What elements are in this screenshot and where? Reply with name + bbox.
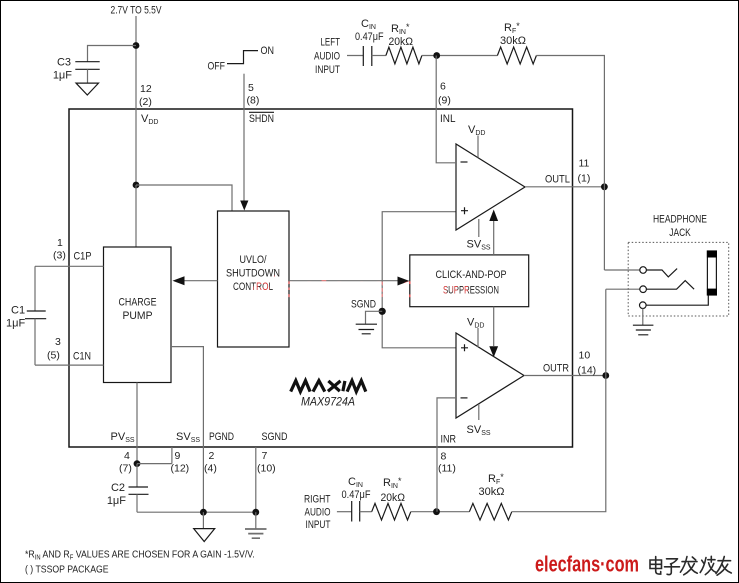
wire left input xyxy=(347,55,363,57)
arrow into charge pump xyxy=(173,276,185,285)
wire CIN to RIN xyxy=(372,55,386,57)
jack tip switch xyxy=(646,269,677,277)
svg-text:RIGHT: RIGHT xyxy=(304,494,331,506)
capacitor C3 xyxy=(75,62,99,70)
wire SVSS pin tick xyxy=(171,447,173,464)
U-L plus input symbol xyxy=(461,207,468,214)
wire VDD to charge pump xyxy=(135,185,137,247)
wire RIN to node xyxy=(422,55,498,57)
wire bottom ground bus xyxy=(137,511,256,513)
resistor RIN (right) xyxy=(372,503,411,520)
wire SGND pin tick xyxy=(255,447,257,512)
capacitor C1 xyxy=(34,266,36,311)
wire VDD to UVLO xyxy=(136,185,232,211)
node PVSS junction xyxy=(134,460,141,467)
node OUTL junction xyxy=(601,183,608,190)
svg-text:*RIN AND RF VALUES ARE CHOSEN: *RIN AND RF VALUES ARE CHOSEN FOR A GAIN… xyxy=(25,549,255,562)
op-amp U-R (right channel) xyxy=(456,333,524,418)
svg-text:OUTR: OUTR xyxy=(543,363,569,375)
wire VDD rail vertical xyxy=(135,16,137,185)
svg-text:MAX9724A: MAX9724A xyxy=(301,395,355,409)
wire internal SGND net (opamp + inputs) xyxy=(382,212,456,348)
svg-text:3: 3 xyxy=(55,336,61,348)
svg-text:SHDN: SHDN xyxy=(249,113,274,125)
svg-text:OFF: OFF xyxy=(208,61,226,73)
svg-text:C1N: C1N xyxy=(73,351,91,363)
logo MAXIM xyxy=(291,381,366,392)
svg-text:(7): (7) xyxy=(119,463,132,475)
svg-text:6: 6 xyxy=(440,81,446,93)
svg-text:(9): (9) xyxy=(438,95,451,107)
svg-text:(3): (3) xyxy=(53,250,66,262)
svg-text:2.7V TO 5.5V: 2.7V TO 5.5V xyxy=(111,5,163,17)
resistor RF (left) xyxy=(497,47,536,64)
svg-text:AUDIO: AUDIO xyxy=(305,507,331,519)
arrow into UVLO xyxy=(240,201,248,211)
svg-text:11: 11 xyxy=(579,158,590,170)
node VDD internal junction xyxy=(133,182,140,189)
svg-text:C1: C1 xyxy=(11,305,25,317)
svg-text:(5): (5) xyxy=(47,350,60,362)
svg-text:(10): (10) xyxy=(257,463,276,475)
arrow into click-and-pop xyxy=(398,277,410,286)
node SGND internal xyxy=(379,308,386,315)
svg-text:(1): (1) xyxy=(578,173,591,185)
wire UVLO to click-and-pop xyxy=(289,280,398,282)
svg-text:C2: C2 xyxy=(111,482,125,494)
jack ring contact xyxy=(640,286,647,293)
svg-text:1μF: 1μF xyxy=(53,70,72,82)
wire INR internal xyxy=(437,398,456,447)
svg-text:9: 9 xyxy=(175,450,181,462)
svg-text:ON: ON xyxy=(261,45,275,57)
svg-text:(2): (2) xyxy=(139,96,152,108)
wire sleeve to ground xyxy=(642,309,644,326)
svg-text:20kΩ: 20kΩ xyxy=(389,36,414,48)
svg-text:SGND: SGND xyxy=(262,431,288,443)
node OUTR junction xyxy=(602,372,609,379)
svg-text:elecfans·com: elecfans·com xyxy=(535,552,639,577)
svg-text:7: 7 xyxy=(262,450,268,462)
wire RF to output column xyxy=(536,56,604,271)
wire suppression to OUTR amp xyxy=(493,307,495,346)
wire OUTR to jack ring xyxy=(606,288,640,290)
resistor RF (right) xyxy=(469,503,511,520)
svg-text:20kΩ: 20kΩ xyxy=(381,492,406,504)
wire node to INR pin xyxy=(436,447,438,512)
svg-text:2: 2 xyxy=(209,450,215,462)
jack sleeve contact xyxy=(640,302,647,309)
svg-text:0.47μF: 0.47μF xyxy=(342,489,371,501)
wire PVSS to SVSS xyxy=(137,463,172,465)
capacitor C2 xyxy=(136,464,138,487)
svg-text:(12): (12) xyxy=(171,463,190,475)
jack plug body xyxy=(707,251,716,295)
svg-text:LEFT: LEFT xyxy=(321,37,341,49)
wire OUTL to jack tip xyxy=(604,269,640,271)
wire SHDN pin line xyxy=(243,74,245,202)
wire charge pump to PVSS pin xyxy=(136,383,138,464)
U-L SVSS stub xyxy=(478,219,480,237)
ground SGND internal (earth) xyxy=(366,311,383,324)
svg-text:12: 12 xyxy=(140,83,152,95)
capacitor CIN (left) xyxy=(363,46,372,66)
ground SGND (earth) xyxy=(255,512,257,529)
svg-text:1: 1 xyxy=(57,237,63,249)
svg-text:1μF: 1μF xyxy=(107,495,126,507)
ground PGND (open triangle) xyxy=(202,512,204,528)
wire to C3 xyxy=(88,46,137,62)
svg-text:UVLO/: UVLO/ xyxy=(240,254,268,266)
capacitor CIN (right) xyxy=(352,501,360,522)
svg-text:5: 5 xyxy=(248,82,254,94)
svg-text:OUTL: OUTL xyxy=(545,174,570,186)
svg-text:JACK: JACK xyxy=(669,227,691,239)
arrow up into OUTL amp xyxy=(489,210,498,222)
resistor RIN (left) xyxy=(386,47,422,64)
wire INL internal xyxy=(436,109,456,163)
svg-text:AUDIO: AUDIO xyxy=(314,51,340,63)
op-amp UVLO/shutdown control box U-CTRL xyxy=(218,211,290,347)
wire RF to output column (right) xyxy=(512,289,606,512)
ground C3 (open triangle) xyxy=(76,83,99,95)
svg-text:INR: INR xyxy=(441,434,457,446)
op-amp U-L (left channel) xyxy=(456,144,525,230)
svg-text:30kΩ: 30kΩ xyxy=(479,486,505,498)
U-R plus input symbol xyxy=(461,344,468,351)
svg-text:(8): (8) xyxy=(247,95,260,107)
svg-text:CHARGE: CHARGE xyxy=(119,297,157,309)
svg-text:( ) TSSOP PACKAGE: ( ) TSSOP PACKAGE xyxy=(25,564,109,576)
svg-text:1μF: 1μF xyxy=(6,318,25,330)
op-amp suppression block CLICK-AND-POP xyxy=(410,255,529,307)
wire C1P xyxy=(35,265,104,267)
node PGND junction xyxy=(200,509,207,516)
IC MAX9724A outline xyxy=(69,109,573,447)
node SGND junction xyxy=(252,509,259,516)
svg-text:(11): (11) xyxy=(438,463,456,475)
U-R minus input symbol xyxy=(461,397,468,399)
wire node to INL pin xyxy=(435,56,437,110)
svg-text:30kΩ: 30kΩ xyxy=(500,35,526,47)
logo chinese characters xyxy=(650,556,731,575)
svg-text:10: 10 xyxy=(579,350,591,362)
svg-text:elecfans·com: elecfans·com xyxy=(252,271,470,304)
wire right input xyxy=(337,511,352,513)
svg-text:PGND: PGND xyxy=(209,431,234,443)
wire charge pump to PGND pin xyxy=(171,347,203,513)
svg-text:C3: C3 xyxy=(57,57,71,69)
wire sleeve to plug xyxy=(646,296,708,306)
svg-text:INPUT: INPUT xyxy=(306,519,331,531)
jack ring switch xyxy=(646,281,694,290)
wire OUTL xyxy=(525,186,604,188)
wire suppression to OUTL amp xyxy=(493,221,495,255)
svg-text:INPUT: INPUT xyxy=(315,64,340,76)
wire CIN to RIN (right) xyxy=(360,511,372,513)
svg-text:PUMP: PUMP xyxy=(123,310,153,322)
U-L minus input symbol xyxy=(461,161,468,163)
wire UVLO to charge pump xyxy=(184,280,218,282)
svg-text:0.47μF: 0.47μF xyxy=(355,31,384,43)
svg-text:HEADPHONE: HEADPHONE xyxy=(653,214,707,226)
wire C1N xyxy=(35,364,104,366)
svg-text:INL: INL xyxy=(440,113,456,125)
svg-text:C1P: C1P xyxy=(74,251,92,263)
arrow down into OUTR amp xyxy=(489,346,498,357)
node INL/feedback xyxy=(433,52,440,59)
U-R SVSS stub xyxy=(478,404,480,420)
svg-text:4: 4 xyxy=(124,450,130,462)
ground jack (earth) xyxy=(633,325,654,335)
node C3 tap xyxy=(133,42,140,49)
node INR/feedback xyxy=(433,508,440,515)
svg-text:8: 8 xyxy=(441,451,447,463)
jack tip contact xyxy=(640,267,647,274)
charge pump box xyxy=(104,247,172,383)
wire RIN to node (right) xyxy=(411,511,470,513)
svg-text:(14): (14) xyxy=(578,365,597,377)
headphone jack dashed box xyxy=(628,242,729,316)
wire OUTR xyxy=(524,375,606,377)
svg-text:(4): (4) xyxy=(204,463,217,475)
